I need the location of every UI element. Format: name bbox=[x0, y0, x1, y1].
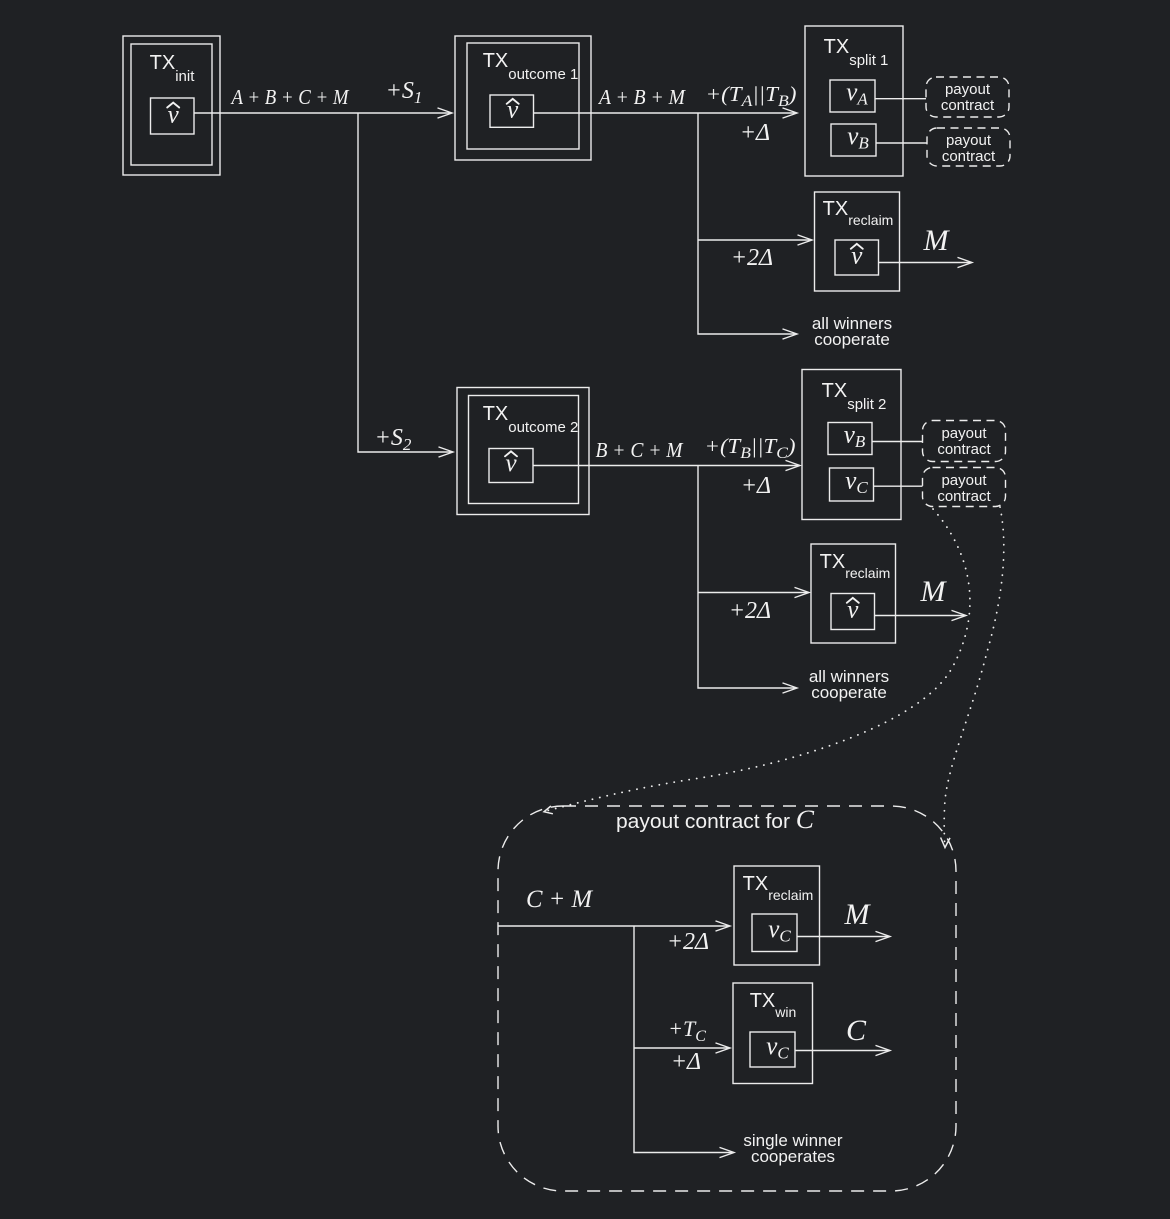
svg-text:TXoutcome 2: TXoutcome 2 bbox=[483, 403, 579, 436]
svg-text:TXreclaim: TXreclaim bbox=[820, 551, 891, 581]
svg-text:+(TB||TC): +(TB||TC) bbox=[705, 434, 796, 462]
svg-text:TXreclaim: TXreclaim bbox=[743, 873, 814, 903]
svg-text:+S2: +S2 bbox=[375, 425, 412, 454]
svg-text:contract: contract bbox=[941, 97, 995, 114]
svg-text:+Δ: +Δ bbox=[671, 1049, 701, 1075]
svg-text:A + B + M: A + B + M bbox=[597, 85, 686, 109]
svg-text:vB: vB bbox=[847, 123, 869, 153]
svg-text:A + B + C + M: A + B + C + M bbox=[230, 85, 350, 109]
svg-text:vC: vC bbox=[766, 1033, 789, 1063]
svg-text:vA: vA bbox=[846, 79, 868, 109]
svg-text:vC: vC bbox=[768, 916, 791, 946]
svg-text:contract: contract bbox=[937, 488, 991, 505]
svg-text:+(TA||TB): +(TA||TB) bbox=[706, 82, 797, 110]
svg-text:TXsplit 2: TXsplit 2 bbox=[822, 380, 887, 413]
svg-text:payout: payout bbox=[945, 81, 991, 98]
svg-text:B + C + M: B + C + M bbox=[596, 438, 684, 462]
svg-text:vC: vC bbox=[845, 468, 868, 498]
svg-text:+2Δ: +2Δ bbox=[667, 929, 709, 955]
svg-text:+S1: +S1 bbox=[386, 78, 423, 107]
svg-text:M: M bbox=[920, 575, 948, 608]
svg-text:M: M bbox=[923, 224, 951, 257]
svg-text:+2Δ: +2Δ bbox=[729, 598, 771, 624]
svg-text:+Δ: +Δ bbox=[741, 473, 771, 499]
svg-text:+2Δ: +2Δ bbox=[731, 245, 773, 271]
svg-text:+Δ: +Δ bbox=[740, 120, 770, 146]
svg-text:payout: payout bbox=[946, 132, 992, 149]
svg-text:payout contract for C: payout contract for C bbox=[616, 805, 815, 834]
svg-text:M: M bbox=[844, 898, 872, 931]
svg-text:TXreclaim: TXreclaim bbox=[823, 198, 894, 228]
svg-text:cooperates: cooperates bbox=[751, 1147, 835, 1166]
svg-text:cooperate: cooperate bbox=[811, 683, 887, 702]
svg-text:TXwin: TXwin bbox=[750, 990, 797, 1020]
svg-text:TXoutcome 1: TXoutcome 1 bbox=[483, 50, 579, 83]
svg-text:+TC: +TC bbox=[668, 1016, 706, 1045]
svg-text:contract: contract bbox=[942, 148, 996, 165]
svg-text:contract: contract bbox=[937, 441, 991, 458]
svg-text:vB: vB bbox=[844, 422, 866, 452]
svg-text:payout: payout bbox=[941, 472, 987, 489]
svg-text:TXsplit 1: TXsplit 1 bbox=[824, 36, 889, 69]
svg-text:TXinit: TXinit bbox=[150, 52, 196, 85]
svg-text:cooperate: cooperate bbox=[814, 330, 890, 349]
svg-text:C + M: C + M bbox=[526, 886, 593, 913]
svg-text:payout: payout bbox=[941, 425, 987, 442]
svg-text:C: C bbox=[846, 1014, 867, 1047]
